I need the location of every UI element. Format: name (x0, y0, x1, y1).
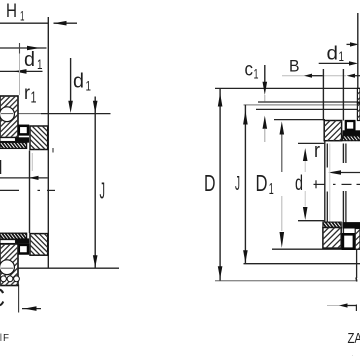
dimension J vertical (93, 97, 98, 269)
extension line D top y88.4 (215, 87, 360, 89)
label d1 top right (327, 43, 345, 65)
extension line c1 bottom y109.4 (256, 108, 360, 110)
svg-text:.: . (352, 352, 353, 357)
extension line x19.5 faint (19, 54, 21, 96)
extension line x18.6 (18, 285, 20, 313)
extension line c1 top y102 (258, 101, 360, 103)
svg-text:d: d (24, 49, 35, 71)
extension line J bottom y263.7 (244, 263, 360, 265)
B extension / wall x343.4 (342, 69, 344, 234)
hatched block B top (flange) (30, 126, 48, 150)
ball bottom (0, 260, 14, 275)
svg-text:d: d (295, 171, 303, 195)
label c1 (245, 60, 259, 82)
bore wall x345.9 (345, 144, 347, 227)
svg-text:1: 1 (269, 181, 274, 198)
extension line x48.3 (47, 17, 49, 268)
extension line y113.6 (0, 113, 111, 115)
extension line D1 bottom y249.2 (272, 248, 360, 250)
hatched block A top (housing washer) (0, 96, 18, 138)
vertical line x356.6 bottom (356, 249, 358, 278)
extension line x29.5 (bore silhouette) (29, 151, 31, 234)
svg-text:1: 1 (339, 48, 345, 64)
vertical line right edge x357.8 (357, 13, 359, 88)
dimension line H (0, 176, 48, 180)
svg-text:1: 1 (254, 67, 259, 82)
svg-text:C: C (0, 283, 5, 313)
dimension line d1 (0, 69, 43, 74)
dimension D vertical (218, 88, 223, 280)
extension line d top y143.4 (298, 142, 325, 144)
svg-text:1: 1 (37, 56, 43, 72)
svg-text:D: D (256, 170, 268, 196)
hatched block right-bottom (323, 228, 341, 249)
svg-text:1: 1 (31, 90, 37, 107)
edge sliver hatch top (357, 88, 360, 120)
label r1 (24, 83, 37, 107)
dimension line d1 second (vertical with down arrow) (68, 58, 73, 113)
extension line D1 y119.6 (274, 119, 325, 121)
bore wall x327.3 lower (326, 192, 328, 227)
white bar top (0, 138, 16, 142)
leader tick below r label (52, 148, 54, 153)
extension line d bottom y220.7 (298, 220, 325, 222)
serration right-top (343, 136, 360, 141)
serration band bottom (0, 233, 27, 239)
d1 bottom mirrored arrow (327, 303, 356, 311)
svg-text:ZA: ZA (348, 330, 360, 347)
serration band top (0, 142, 27, 148)
svg-text:1: 1 (86, 78, 92, 94)
svg-text:F: F (3, 332, 9, 344)
faint extension x32.3 (31, 153, 33, 171)
dimension d vertical (303, 148, 308, 220)
cage square frame top (19, 126, 28, 135)
label H1 (6, 1, 25, 24)
svg-text:d: d (73, 71, 84, 93)
label d1 (second) (73, 71, 91, 94)
svg-text:J: J (235, 172, 240, 195)
dimension line C with arrow (22, 306, 41, 311)
roller circles row (1, 276, 7, 282)
hatched block A bottom (0, 244, 19, 286)
edge sliver hatch bottom (355, 229, 360, 250)
svg-text:H: H (0, 157, 3, 179)
cage frame right-bottom (343, 234, 354, 248)
dimension d1 top lines (319, 42, 359, 65)
hatched block right-top (housing washer section) (324, 121, 341, 141)
white bar bottom (0, 240, 16, 244)
B extension line x323.4 upper (322, 69, 324, 121)
svg-text:B: B (289, 58, 300, 76)
serration right-bottom (323, 222, 341, 227)
svg-text:c: c (245, 60, 254, 81)
line y268 (0, 267, 119, 269)
bore faint gray x329.8 (329, 144, 331, 227)
caption left (cut) (0, 332, 9, 344)
black bar top (16, 137, 30, 142)
dimension c1 vertical with outside arrows (263, 65, 268, 142)
dimension D1 vertical (280, 121, 285, 247)
ball top (0, 107, 14, 122)
extension line J y104.9 gray (244, 104, 360, 106)
extension line D bottom y280.7 (215, 278, 357, 282)
hatched block B bottom (30, 234, 48, 256)
bore wall x327.3 upper (326, 144, 328, 168)
black bar bottom (16, 238, 30, 243)
dimension line at y48 (0, 43, 47, 54)
black bar right-bottom (342, 222, 360, 228)
dimension line H1 (0, 21, 77, 26)
cage frame right-top (346, 121, 355, 130)
svg-text:d: d (327, 43, 339, 65)
label d1 (first) (24, 49, 43, 72)
svg-text:D: D (204, 170, 216, 196)
svg-text:1: 1 (20, 9, 25, 24)
centerline left view (0, 189, 55, 191)
cage square frame bottom (19, 245, 28, 254)
centerline right view (314, 180, 360, 188)
black bar right-top (343, 130, 360, 136)
arrow line y172.5 (328, 170, 360, 174)
svg-text:J: J (100, 178, 106, 204)
dimension J vertical (243, 105, 248, 264)
svg-text:H: H (6, 1, 17, 22)
dimension B horizontal (282, 74, 360, 78)
bore wall x324.8 (324, 121, 326, 227)
